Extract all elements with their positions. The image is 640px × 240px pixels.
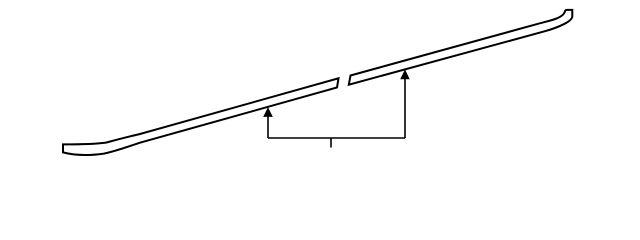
molding strip right section with upturned end (349, 10, 573, 85)
arrowhead right (400, 69, 410, 79)
callout bracket horizontal line (268, 137, 405, 139)
leader tick to label (330, 138, 332, 148)
molding strip left section (63, 78, 339, 155)
callout arrow shaft left (267, 111, 269, 138)
callout arrow shaft right (404, 74, 406, 138)
arrowhead left (263, 107, 273, 117)
